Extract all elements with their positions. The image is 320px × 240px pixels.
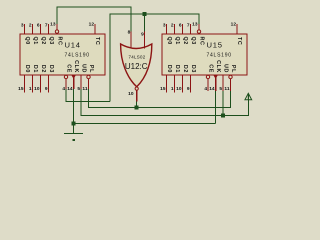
U14 bottom pin 1 (D1) — [32, 75, 34, 93]
svg-text:12: 12 — [89, 22, 95, 28]
svg-text:Q2: Q2 — [40, 37, 46, 45]
ground symbol — [64, 134, 83, 141]
svg-text:Q2: Q2 — [182, 37, 188, 45]
svg-text:D1: D1 — [32, 65, 38, 73]
svg-text:Q1: Q1 — [174, 37, 180, 45]
U14 bottom pin 5 (D/U) — [80, 75, 82, 89]
svg-text:RC: RC — [199, 37, 205, 46]
U14 bottom pin 15 (D0) — [24, 75, 26, 93]
svg-text:74LS190: 74LS190 — [207, 53, 232, 59]
svg-text:Q0: Q0 — [24, 37, 30, 45]
svg-text:11: 11 — [224, 86, 229, 92]
junction dot gate output on load net — [135, 106, 139, 110]
U15 top pin 6 (Q2) — [182, 24, 184, 34]
U15 bottom pin 4 (CE) with bubble — [206, 75, 209, 78]
U12:C input pin 8 — [130, 31, 132, 48]
wire gate input 9 branch — [144, 14, 146, 32]
U12:C output bubble — [135, 87, 138, 90]
svg-text:2: 2 — [29, 23, 32, 29]
U14 top pin 12 (TC) — [94, 24, 96, 34]
U12:C output pin 10 — [136, 90, 138, 101]
U15 bottom pin 15 (D0) — [166, 75, 168, 93]
U15 bottom pin 5 (D/U) — [222, 75, 224, 91]
svg-text:9: 9 — [45, 86, 48, 92]
svg-text:15: 15 — [160, 86, 166, 92]
svg-text:U12:C: U12:C — [125, 62, 148, 71]
svg-text:1: 1 — [171, 86, 174, 92]
U12:C input pin 9 — [144, 31, 146, 49]
svg-text:9: 9 — [141, 32, 144, 38]
U15 body — [162, 34, 247, 75]
svg-text:5: 5 — [77, 86, 80, 92]
svg-text:10: 10 — [34, 86, 40, 92]
svg-text:D2: D2 — [40, 65, 46, 73]
svg-text:TC: TC — [236, 37, 242, 45]
wire load net H3: U14.PL to U15.PL — [89, 89, 231, 108]
svg-text:74LS02: 74LS02 — [129, 55, 146, 60]
wire gate output down to load net — [136, 102, 138, 108]
junction dot at gate input 9 net — [143, 12, 147, 16]
wire U14.RC to gate input 8 — [57, 7, 131, 32]
U14 body — [20, 34, 105, 75]
IC U15 74LS190 — [160, 22, 247, 93]
svg-text:13: 13 — [192, 22, 198, 28]
U14 bottom pin 14 (CLK) with clock mark — [72, 76, 76, 80]
wire U14.CLK down to ground node — [73, 89, 75, 124]
svg-text:Q1: Q1 — [32, 37, 38, 45]
U15 bottom pin 11 (PL) with bubble — [229, 75, 232, 78]
power terminal arrow — [245, 93, 252, 100]
svg-text:9: 9 — [187, 86, 190, 92]
svg-text:PL: PL — [230, 65, 236, 73]
svg-text:Q3: Q3 — [190, 37, 196, 45]
svg-text:13: 13 — [50, 22, 56, 28]
U14 bottom pin 4 (CE) with bubble — [64, 75, 67, 78]
U15 top pin 3 (Q0) — [166, 24, 168, 34]
svg-text:CE: CE — [208, 64, 214, 73]
svg-text:UD: UD — [223, 64, 229, 73]
U14 top pin 2 (Q1) — [32, 24, 34, 34]
wire U15.D/U branch down — [222, 91, 224, 116]
junction dot U15.D/U on power net — [221, 114, 225, 118]
U14 bottom pin 10 (D2) — [40, 75, 42, 93]
svg-text:D3: D3 — [48, 65, 54, 73]
svg-text:CE: CE — [66, 64, 72, 73]
wire ground stem — [73, 124, 75, 134]
svg-text:11: 11 — [82, 86, 87, 92]
U14 bottom pin 11 (PL) with bubble — [87, 75, 90, 78]
svg-text:3: 3 — [21, 23, 24, 29]
U14 top pin 3 (Q0) — [24, 24, 26, 34]
svg-text:3: 3 — [163, 23, 166, 29]
svg-text:10: 10 — [128, 91, 134, 97]
U15 top pin 2 (Q1) — [174, 24, 176, 34]
U15 bottom pin 10 (D2) — [182, 75, 184, 93]
U14 top pin 7 (Q3) — [48, 24, 50, 34]
svg-text:14: 14 — [67, 86, 73, 92]
svg-text:D0: D0 — [24, 65, 30, 73]
svg-text:6: 6 — [37, 23, 40, 29]
svg-text:UD: UD — [81, 64, 87, 73]
wire U15.CLK branch down — [215, 91, 217, 124]
svg-text:D1: D1 — [174, 65, 180, 73]
U15 bottom pin 14 (CLK) with clock mark — [214, 76, 218, 80]
U12:C body — [121, 44, 152, 87]
svg-text:14: 14 — [209, 86, 215, 92]
wire U14.CE to x110 vertical — [66, 89, 110, 101]
svg-text:Q3: Q3 — [48, 37, 54, 45]
svg-text:7: 7 — [187, 23, 190, 29]
svg-text:2: 2 — [171, 23, 174, 29]
U15 top pin 12 (TC) — [236, 24, 238, 34]
svg-text:U15: U15 — [207, 41, 223, 50]
svg-text:D2: D2 — [182, 65, 188, 73]
svg-text:1: 1 — [29, 86, 32, 92]
U15 top pin 7 (Q3) — [190, 24, 192, 34]
svg-text:5: 5 — [219, 86, 222, 92]
svg-text:U14: U14 — [65, 41, 81, 50]
svg-text:15: 15 — [18, 86, 24, 92]
IC U14 74LS190 — [18, 22, 105, 93]
junction dot ground node — [72, 122, 76, 126]
U14 top pin 6 (Q2) — [40, 24, 42, 34]
svg-text:Q0: Q0 — [166, 37, 172, 45]
svg-text:12: 12 — [231, 22, 237, 28]
svg-text:CLK: CLK — [215, 60, 221, 73]
svg-text:74LS190: 74LS190 — [65, 53, 90, 59]
wire net y14: from x110 vertical to U15.RC — [110, 14, 199, 101]
U15 bottom pin 1 (D1) — [174, 75, 176, 93]
U14 top pin 13 (RC) with bubble — [56, 24, 58, 30]
NOR gate U12:C 74LS02 — [121, 30, 152, 102]
wire ground bus H4 — [74, 123, 216, 125]
svg-text:4: 4 — [204, 86, 207, 92]
svg-text:D0: D0 — [166, 65, 172, 73]
svg-text:CLK: CLK — [73, 60, 79, 73]
svg-text:RC: RC — [57, 37, 63, 46]
svg-text:PL: PL — [88, 65, 94, 73]
wire U14.D/U to U15.D/U (power net) — [81, 89, 248, 116]
svg-text:4: 4 — [62, 86, 65, 92]
U14 bottom pin 9 (D3) — [48, 75, 50, 93]
U15 top pin 13 (RC) with bubble — [198, 24, 200, 30]
U15 bottom pin 9 (D3) — [190, 75, 192, 93]
svg-text:7: 7 — [45, 23, 48, 29]
svg-text:TC: TC — [94, 37, 100, 45]
svg-text:10: 10 — [176, 86, 182, 92]
svg-text:D3: D3 — [190, 65, 196, 73]
svg-text:6: 6 — [179, 23, 182, 29]
svg-text:8: 8 — [128, 30, 131, 36]
